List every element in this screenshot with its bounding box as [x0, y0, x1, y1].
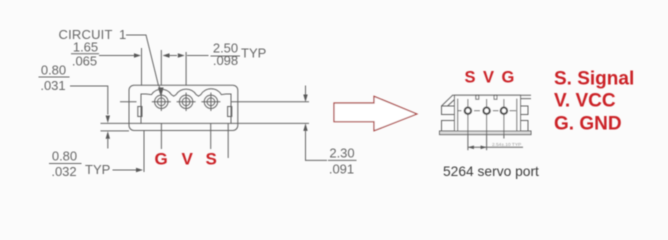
connector housing inner cavity with scalloped top	[141, 89, 231, 124]
right tab lower	[521, 121, 529, 132]
pitch dimension line with arrows	[468, 146, 523, 148]
pin centre dash left	[458, 110, 462, 112]
pin 3	[201, 93, 220, 111]
svg-text:G: G	[155, 150, 168, 169]
pin 1 (circuit 1)	[152, 93, 171, 111]
inner wall left	[457, 99, 459, 131]
inner chamfer	[448, 99, 456, 106]
pin G center line	[503, 99, 505, 139]
svg-text:V: V	[182, 150, 194, 169]
svg-text:.031: .031	[40, 78, 65, 93]
svg-text:0.80: 0.80	[41, 63, 66, 78]
extension line at housing inner-left wall	[141, 48, 143, 85]
svg-text:0.80: 0.80	[52, 149, 77, 164]
right tab upper	[521, 106, 529, 115]
extension line pin 1 center	[160, 50, 162, 85]
connector housing outer body (top view)	[129, 85, 238, 130]
pin centre dash right	[510, 110, 517, 112]
svg-text:5264 servo port: 5264 servo port	[443, 164, 539, 179]
svg-text:2.54±.10 TYP: 2.54±.10 TYP	[492, 142, 521, 148]
inner top line	[455, 98, 531, 100]
svg-text:1.65: 1.65	[73, 40, 98, 55]
leader wire from CIRCUIT 1 to pin 1	[126, 35, 159, 86]
svg-text:S. Signal: S. Signal	[554, 69, 634, 90]
arrow down to inner-bottom line	[106, 116, 110, 124]
top flange line	[452, 94, 531, 96]
svg-text:1: 1	[119, 27, 126, 42]
svg-text:V. VCC: V. VCC	[554, 91, 616, 112]
extension line inner-bottom to right	[231, 122, 309, 124]
svg-text:V: V	[483, 69, 494, 87]
pin centre dash 2-3	[493, 110, 499, 112]
chamfer top-left	[442, 95, 453, 106]
top polarization notch 1	[476, 95, 479, 99]
arrow up to outer-bottom line	[106, 131, 110, 139]
svg-text:2.30: 2.30	[329, 146, 354, 161]
pin-center datum stub left	[120, 101, 137, 103]
main body	[455, 95, 521, 131]
pin V center line	[486, 99, 488, 150]
svg-text:TYP: TYP	[241, 46, 266, 61]
left tab upper	[442, 106, 455, 115]
inner wall right	[516, 99, 518, 131]
leader arrow of 0.80/.032 TYP	[113, 169, 137, 171]
leader wire from 0.80/.031	[70, 86, 108, 115]
extension line outer bottom, left side	[101, 130, 130, 132]
svg-text:.065: .065	[72, 54, 97, 69]
pin G	[501, 108, 507, 114]
extension line pin 2 center	[185, 52, 187, 85]
svg-text:.091: .091	[329, 162, 354, 177]
dimension 2.30 vertical arrows	[305, 86, 307, 96]
dimension line row (1.65 and 2.50 arrows)	[99, 55, 136, 57]
left wall slot	[138, 107, 142, 117]
pin S center line	[467, 99, 469, 150]
svg-text:.032: .032	[51, 164, 76, 179]
big red arrow	[334, 96, 417, 131]
extension lines below connector	[143, 131, 145, 172]
svg-text:S: S	[206, 150, 217, 169]
pin V	[483, 108, 489, 114]
pin 2	[177, 93, 196, 111]
pin S	[465, 108, 471, 114]
extension line inner bottom, left side	[101, 122, 142, 124]
left tab lower	[442, 121, 455, 132]
extension line pin-center to right	[231, 101, 309, 103]
right connector front view	[440, 95, 532, 134]
svg-text:S: S	[465, 69, 476, 87]
bottom flange	[440, 131, 532, 135]
svg-text:TYP: TYP	[85, 162, 110, 177]
right wall slot	[228, 107, 232, 117]
svg-text:G: G	[502, 69, 515, 87]
pin centre dash 1-2	[474, 110, 480, 112]
svg-text:G. GND: G. GND	[554, 114, 622, 135]
top polarization notch 2	[494, 95, 497, 99]
svg-text:.098: .098	[213, 53, 238, 68]
